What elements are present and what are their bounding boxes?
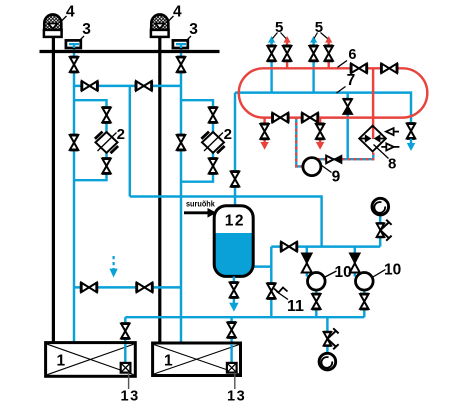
- valve y287 right: [137, 282, 153, 292]
- valve line7 to return (filled bottom): [343, 99, 352, 114]
- wire blue line 7: [235, 93, 411, 124]
- valve vent a: [267, 46, 276, 61]
- expansion device 3 (right): [173, 40, 188, 48]
- valve box1 feed: [121, 324, 130, 339]
- signal arrow lower (points right): [381, 143, 399, 150]
- svg-text:5: 5: [315, 19, 323, 36]
- svg-text:4: 4: [66, 4, 75, 21]
- valve manifold: [281, 242, 297, 252]
- wire black header pipe: [40, 50, 220, 53]
- pressure gauge top right: [372, 198, 389, 215]
- air heater box 1 (right): [153, 343, 241, 376]
- safety valve 11: [267, 284, 288, 299]
- valve drain a: [260, 124, 269, 139]
- wire red drain stub b: [319, 118, 321, 143]
- valve pump2 outlet: [360, 294, 369, 309]
- coil 13 (left): [121, 363, 131, 373]
- valve x235 tank feed: [231, 172, 240, 187]
- pump 10 (right): [356, 273, 374, 291]
- svg-text:8: 8: [388, 156, 396, 173]
- blue up arrow a: [268, 36, 275, 43]
- check valve pump 1: [302, 253, 312, 272]
- air tank 12: [214, 206, 253, 277]
- wire cyan drop x130 to long line: [129, 86, 131, 197]
- wire cyan gauge top drop: [379, 216, 381, 247]
- label 7 leader: [337, 87, 346, 94]
- label 8 leader: [374, 145, 389, 159]
- svg-text:2: 2: [117, 126, 125, 143]
- wire cyan box2 feed: [230, 317, 232, 343]
- valve cross branch right: [136, 81, 152, 91]
- wire red vent stub b: [328, 42, 330, 69]
- wire cyan filter branch 1: [74, 100, 107, 180]
- wire cyan tank outlet: [253, 247, 271, 318]
- blue down arrow right: [407, 139, 415, 151]
- label 5 (right) leaders: [314, 33, 328, 39]
- valve filter2 lower: [209, 159, 218, 174]
- label 9 leader: [321, 165, 332, 173]
- valve col2 top: [177, 57, 186, 72]
- blue up arrow b: [310, 36, 317, 43]
- pump 10 (left): [308, 273, 326, 291]
- label 3 (left) leader: [80, 36, 85, 41]
- svg-text:9: 9: [332, 168, 341, 185]
- valve filter1 upper: [102, 108, 111, 123]
- valve cross branch left: [82, 81, 98, 91]
- wire cyan column 1 main: [73, 44, 75, 344]
- strainer 2 (left): [95, 132, 118, 154]
- valve filter1 lower: [102, 159, 111, 174]
- label 4 (right) leader: [167, 16, 174, 23]
- wire cyan y287 branch: [74, 286, 181, 288]
- valve box2 feed: [227, 323, 236, 338]
- valve vent d: [324, 46, 333, 61]
- fan motor 4 (right): [151, 15, 169, 37]
- expansion device 3 (left): [66, 40, 81, 48]
- valve red bottom b: [302, 113, 318, 123]
- wire dashed mix line left: [296, 117, 303, 167]
- label 2 (left) leader: [98, 133, 117, 152]
- red down arrow b: [316, 142, 324, 150]
- check valve pump 2: [350, 253, 360, 272]
- valve red bottom a: [273, 113, 289, 123]
- wire cyan x235 tank feed from loop: [234, 93, 236, 206]
- wire red vent stub a: [286, 42, 288, 69]
- wire cyan pump branch 2: [354, 247, 356, 277]
- wire cyan column 2 main: [180, 44, 182, 344]
- wire red drain stub a: [263, 118, 265, 143]
- label 6 leader: [338, 61, 348, 68]
- valve drain b: [316, 124, 325, 139]
- wire black riser 1: [52, 37, 55, 344]
- pressure gauge bottom: [319, 353, 336, 370]
- svg-text:7: 7: [347, 72, 356, 89]
- check valve at pump 9: [326, 155, 342, 163]
- pump 9: [303, 158, 321, 176]
- wire black riser 2: [158, 37, 161, 344]
- svg-text:3: 3: [189, 21, 198, 38]
- wire cyan into box1: [124, 344, 126, 363]
- wire cyan manifold y246.6: [271, 245, 380, 247]
- drain valve bottom: [323, 328, 338, 349]
- valve pump1 outlet: [312, 294, 321, 309]
- valve red top a: [351, 63, 367, 73]
- fan motor 4 (left): [44, 15, 62, 37]
- valve tank drain: [230, 283, 239, 298]
- svg-text:5: 5: [275, 19, 283, 36]
- svg-text:1: 1: [57, 353, 66, 370]
- wire cyan box1 feed elbow: [124, 317, 126, 343]
- svg-text:suruõhk: suruõhk: [186, 200, 215, 209]
- valve blue line right end: [407, 124, 416, 139]
- dashed flow arrow into y287: [109, 256, 117, 278]
- wire cyan bottom line y317: [125, 316, 364, 318]
- wire cyan tank drain: [233, 277, 235, 304]
- label 11 leader: [277, 292, 289, 300]
- wire cyan pump branch 1: [306, 247, 308, 277]
- air heater box 1 (left): [46, 343, 136, 377]
- signal arrow upper (points left): [386, 128, 399, 135]
- wire cyan cross branch y86: [74, 85, 181, 87]
- svg-text:2: 2: [224, 126, 232, 143]
- valve vent c: [309, 46, 318, 61]
- wire cyan bypass valve stub: [346, 93, 348, 160]
- svg-text:12: 12: [225, 212, 245, 229]
- wire dashed mix line right: [318, 153, 374, 160]
- red up arrow a: [284, 36, 291, 43]
- valve col1 top: [70, 57, 79, 72]
- cyan down arrow tank drain: [229, 303, 238, 312]
- label 3 (right) leader: [187, 36, 192, 41]
- mixing unit 8: [359, 126, 386, 152]
- label 10 (left) leader: [324, 271, 337, 278]
- svg-text:11: 11: [287, 298, 304, 315]
- red down arrow a: [260, 142, 268, 150]
- svg-text:10: 10: [335, 264, 352, 281]
- svg-text:13: 13: [227, 388, 246, 404]
- coil 13 (right): [227, 363, 237, 373]
- wire cyan pump 2 outlet: [363, 284, 365, 317]
- wire cyan filter branch 2: [181, 100, 213, 182]
- valve red top b: [381, 63, 397, 73]
- wire red vertical through mixer: [372, 68, 374, 139]
- valve y287 left: [81, 282, 97, 292]
- valve vent b: [283, 46, 292, 61]
- black air arrow: [184, 208, 217, 218]
- valve col2 main: [177, 135, 186, 150]
- svg-text:10: 10: [384, 262, 401, 279]
- svg-text:6: 6: [348, 47, 356, 63]
- valve filter2 upper: [209, 108, 218, 123]
- label 10 (right) leader: [372, 270, 386, 278]
- label 4 (left) leader: [60, 16, 67, 23]
- wire cyan into box2: [230, 344, 232, 363]
- svg-text:13: 13: [121, 388, 140, 404]
- valve col1 main: [70, 135, 79, 150]
- label 2 (right) leader: [204, 133, 223, 152]
- red up arrow b: [325, 36, 332, 43]
- svg-text:4: 4: [173, 4, 182, 21]
- wire cyan long line y196.5: [130, 197, 322, 247]
- label 13 (left) leader: [128, 373, 130, 389]
- label 13 (right) leader: [234, 373, 236, 389]
- wire cyan bottom gauge drop: [326, 317, 328, 353]
- svg-text:1: 1: [164, 353, 173, 370]
- wire cyan vent stub b: [312, 42, 314, 93]
- label 5 (left) leaders: [273, 33, 287, 39]
- red heat loop 6: [239, 68, 427, 117]
- wire cyan vent stub a: [270, 42, 272, 93]
- svg-text:3: 3: [82, 21, 91, 38]
- wire cyan pump 1 outlet: [315, 284, 317, 317]
- strainer 2 (right): [201, 132, 224, 154]
- drain valve top right: [376, 220, 391, 241]
